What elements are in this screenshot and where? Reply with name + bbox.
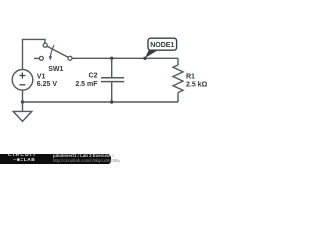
wire: ground stem bbox=[22, 102, 24, 111]
capacitor C2 top plate bbox=[101, 77, 124, 79]
voltage source V1 circle bbox=[12, 70, 33, 91]
resistor R1 zigzag body bbox=[173, 65, 183, 93]
switch SW1 throw stub (open, lower-left) bbox=[34, 57, 40, 59]
svg-text:C2: C2 bbox=[89, 72, 98, 79]
wire: left rail from V1 top up to corner bbox=[22, 39, 24, 69]
node NODE1 flag box bbox=[148, 38, 177, 50]
junction dot at V1/ground bbox=[21, 100, 24, 103]
switch SW1 actuation arrow bbox=[50, 45, 54, 56]
switch SW1 blade bbox=[45, 45, 70, 58]
svg-text:R1: R1 bbox=[186, 73, 195, 80]
svg-text:2.5 mF: 2.5 mF bbox=[75, 81, 98, 88]
V1 minus sign bbox=[19, 84, 25, 86]
watermark bar bbox=[0, 154, 111, 165]
wire: bottom rail bbox=[23, 101, 179, 103]
watermark url text bbox=[53, 159, 120, 163]
svg-text:6.25 V: 6.25 V bbox=[37, 81, 58, 88]
wire: top-left horizontal to switch throw stub bbox=[22, 39, 45, 43]
svg-text:NODE1: NODE1 bbox=[150, 42, 174, 49]
switch SW1 lower throw terminal circle bbox=[39, 56, 43, 60]
node NODE1 flag tail bbox=[145, 49, 160, 58]
wire: top rail from switch common to R1 corner bbox=[72, 57, 178, 59]
node NODE1 junction dot bbox=[143, 57, 146, 60]
watermark CircuitLab logo bbox=[8, 154, 37, 163]
junction dot at C2 bottom bbox=[110, 100, 113, 103]
ground symbol triangle bbox=[13, 111, 32, 121]
resistor R1 bottom lead bbox=[177, 93, 179, 102]
switch SW1 top throw terminal circle bbox=[43, 43, 47, 47]
wire: C2 top lead bbox=[111, 58, 113, 77]
switch SW1 common terminal circle bbox=[68, 56, 72, 60]
resistor R1 top lead bbox=[177, 58, 179, 65]
wire: V1 bottom lead to bottom rail bbox=[22, 90, 24, 102]
watermark title text bbox=[53, 154, 115, 158]
V1 plus sign bbox=[19, 73, 25, 79]
svg-text:SW1: SW1 bbox=[48, 66, 63, 73]
wire: C2 bottom lead bbox=[111, 82, 113, 102]
svg-text:V1: V1 bbox=[37, 73, 46, 80]
node junction dot at C2 top bbox=[110, 57, 113, 60]
svg-text:2.5 kΩ: 2.5 kΩ bbox=[186, 81, 208, 88]
capacitor C2 bottom plate bbox=[101, 81, 124, 83]
